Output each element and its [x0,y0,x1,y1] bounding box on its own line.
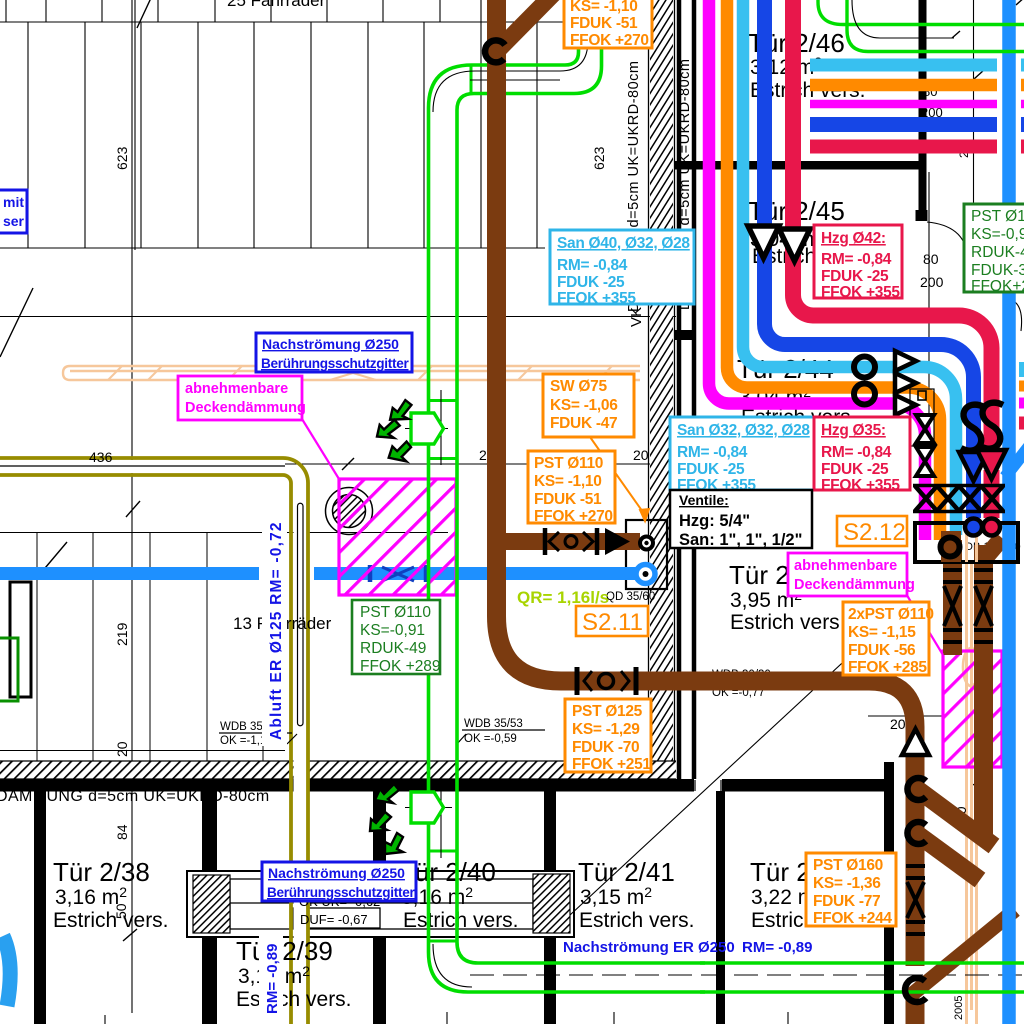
svg-text:DÄMMUNG d=5cm UK=UKRD-80cm: DÄMMUNG d=5cm UK=UKRD-80cm [0,787,270,805]
horizontal bars top right [810,65,1024,147]
San box 2 [670,417,814,494]
svg-text:FDUK-35: FDUK-35 [971,262,1024,279]
svg-text:80: 80 [923,251,939,267]
magenta hatch box right [943,651,1002,767]
svg-text:OK =-0,59: OK =-0,59 [464,733,517,745]
svg-text:FDUK -70: FDUK -70 [572,739,639,756]
thin black arc top right duct [852,0,935,38]
thick wall below band [0,779,694,792]
svg-text:RDUK-49: RDUK-49 [360,640,426,657]
PST160 box [806,853,896,927]
SW box [543,374,634,437]
blue big vertical pipe right [1002,0,1016,1024]
svg-text:FDUK -47: FDUK -47 [550,415,617,432]
ticks [0,0,151,941]
svg-text:Tür 2/38: Tür 2/38 [53,857,150,887]
svg-text:Deckendämmung: Deckendämmung [794,577,915,593]
svg-text:200: 200 [920,274,944,290]
right edge chips [1019,370,1024,424]
svg-text:abnehmenbare: abnehmenbare [794,558,897,574]
big down triangles Tuer 2/45 [748,226,779,258]
thin black arcs in duct [405,0,588,987]
blue box 1 [256,333,412,372]
svg-text:San Ø40, Ø32, Ø28: San Ø40, Ø32, Ø28 [557,235,690,252]
brown diagonal top [497,0,575,51]
svg-text:Estrich vers.: Estrich vers. [53,909,169,932]
green duct top right thin [818,0,1024,52]
svg-text:FFOK +285: FFOK +285 [848,659,927,676]
fittings on brown branch [545,528,597,555]
svg-text:FFOK+25: FFOK+25 [971,278,1024,295]
green rect left edge [0,638,18,701]
manifold rect [915,523,1018,562]
svg-text:Abluft ER Ø125 RM= -0,72: Abluft ER Ø125 RM= -0,72 [268,521,285,740]
orange leader from SW box [590,437,649,521]
door/grille assembly bottom [187,871,574,937]
brown branch to flange [498,533,640,550]
svg-text:KS= -1,10: KS= -1,10 [570,0,638,15]
crossing rings [854,357,875,378]
svg-text:Estrich vers.: Estrich vers. [730,611,846,634]
svg-text:Deckendämmung: Deckendämmung [185,400,306,416]
wall stub crossing [675,330,694,340]
blue pipe Abluft [0,567,655,580]
bottom-left small blue curve [3,936,10,1006]
svg-text:20: 20 [633,447,649,463]
svg-text:Estrich vers.: Estrich vers. [403,909,519,932]
svg-text:DUF= -0,67: DUF= -0,67 [300,912,368,927]
brown risers right [943,540,962,655]
svg-text:RM= -0,84: RM= -0,84 [821,251,892,268]
filled triangles blue red [959,452,988,481]
svg-text:KS= -1,10: KS= -1,10 [534,473,602,490]
X-band wall [913,486,1005,512]
svg-text:PST Ø125: PST Ø125 [572,703,643,720]
drain circle [326,488,373,535]
blue box 2 [262,862,416,901]
svg-text:84: 84 [114,824,130,840]
peach vertical conduit right [963,545,979,1024]
svg-text:Estrich vers.: Estrich vers. [579,909,695,932]
green arrows set2 [370,784,403,854]
thin rect around flanges [626,520,667,589]
svg-text:QD 35/60: QD 35/60 [606,591,655,603]
dimension line 623 [132,0,135,1013]
olive duct white interior [0,460,283,473]
dim line y464 [285,463,676,465]
svg-text:PST Ø110: PST Ø110 [971,208,1024,225]
svg-text:2005: 2005 [953,996,965,1020]
green pentagon damper 2 [411,792,444,823]
S2.12 box [837,516,907,546]
svg-text:WDB 35/53: WDB 35/53 [464,718,523,730]
S2.11 box [576,606,648,636]
green pentagon damper 1 [411,413,444,444]
svg-text:FFOK +244: FFOK +244 [813,910,892,927]
svg-text:QR= 1,16l/s: QR= 1,16l/s [517,588,609,607]
five risers: magenta [709,0,925,540]
svg-text:Estrich vers.: Estrich vers. [236,988,352,1011]
solid arrow right [605,528,630,555]
svg-text:FDUK -25: FDUK -25 [557,274,625,291]
svg-text:abnehmenbare: abnehmenbare [185,381,288,397]
black rect left [10,582,31,697]
bowtie valves on magenta riser [910,389,934,446]
orange box top [564,0,652,49]
brown diagonals bottom right [913,786,994,846]
svg-text:FFOK +270: FFOK +270 [570,32,649,49]
svg-text:Ventile:: Ventile: [679,492,729,508]
svg-text:FDUK -25: FDUK -25 [821,268,889,285]
fittings on brown horizontal 2 [577,667,636,695]
svg-text:20: 20 [114,741,130,757]
C ring bottom elbow [905,978,926,1002]
green box right [964,204,1024,295]
brown main pipe vertical + elbow [497,0,1016,1024]
svg-text:S2.12: S2.12 [843,519,906,546]
thin line top duct centerline [935,37,954,39]
red riser [793,0,992,452]
svg-text:Berührungsschutzgitter: Berührungsschutzgitter [261,356,409,371]
svg-text:436: 436 [89,449,113,465]
svg-text:FFOK +289: FFOK +289 [360,658,441,675]
svg-text:SW Ø75: SW Ø75 [550,378,607,395]
svg-text:FDUK -25: FDUK -25 [677,461,745,478]
svg-text:Nachströmung Ø250: Nachströmung Ø250 [262,336,399,352]
PST110 box [528,451,615,525]
section diagonal line [570,602,908,915]
olive duct centerline + slot [0,466,303,726]
magenta hatch box center [339,479,456,595]
blue red flange circles [965,519,982,536]
svg-text:San Ø32, Ø32, Ø28: San Ø32, Ø32, Ø28 [677,422,810,439]
svg-text:Berührungsschutzgitter: Berührungsschutzgitter [267,885,415,900]
green PST box left [352,600,441,675]
rotated blue text masks [262,512,287,746]
bike rack main comb [28,0,537,248]
svg-text:FDUK -51: FDUK -51 [534,491,602,508]
navy fitting overlay [370,565,426,582]
olive duct lines [0,458,308,1024]
Hzg box 1 [814,225,902,301]
2xPST box [843,602,934,676]
svg-text:FDUK -25: FDUK -25 [821,461,889,478]
magenta label box 2 + leader [905,592,943,655]
svg-text:3,15 m2: 3,15 m2 [580,884,652,909]
PST125 box [565,699,651,773]
svg-text:25 Fahrräder: 25 Fahrräder [227,0,326,10]
peach grille band [63,366,640,380]
svg-text:PST Ø110: PST Ø110 [534,455,603,472]
door swing arc top right [927,222,968,268]
svg-text:Hzg Ø42:: Hzg Ø42: [821,230,886,247]
svg-text:Tür 2/41: Tür 2/41 [578,857,675,887]
svg-text:2: 2 [479,447,487,463]
blue diagonal branch [1005,440,1024,477]
svg-text:RM= -0,89: RM= -0,89 [742,939,812,956]
svg-text:RM= -0,89: RM= -0,89 [264,944,281,1014]
svg-text:FFOK +355: FFOK +355 [821,284,900,301]
transverse ties [428,65,471,941]
svg-text:KS= -1,29: KS= -1,29 [572,721,640,738]
blue flange + brown flange [636,565,655,584]
svg-text:mit: mit [3,194,24,210]
dim line under 20 right [868,715,944,717]
C rings on brown riser [907,778,926,800]
Ventile box [670,490,812,549]
svg-text:FFOK +251: FFOK +251 [572,756,651,773]
inner line [457,0,705,963]
open triangle on pipe bend [902,729,929,755]
svg-text:Nachströmung ER Ø250: Nachströmung ER Ø250 [563,939,735,956]
orange riser [727,0,940,540]
corner slashes [952,0,1024,79]
svg-text:2xPST Ø110: 2xPST Ø110 [848,606,934,623]
outer line: top-left corner down to bottom elbow [429,0,706,992]
svg-text:623: 623 [591,146,607,170]
lower bike comb 13 Fahrraeder [37,533,263,761]
green air lines overdraw right [700,963,1024,992]
svg-text:Tür 2/39: Tür 2/39 [236,936,333,966]
top right wall horizontal [675,161,926,170]
S symbols on blue and red risers [961,405,984,451]
svg-text:S2.11: S2.11 [582,609,643,636]
bike rack top comb (short) [6,0,496,22]
svg-text:KS=-0,95: KS=-0,95 [971,226,1024,243]
bottom stubs [105,1012,788,1024]
dim line for 50 right [973,776,987,835]
svg-text:Hzg: 5/4": Hzg: 5/4" [679,512,750,530]
svg-text:PST Ø160: PST Ø160 [813,857,883,874]
svg-text:KS= -1,15: KS= -1,15 [848,624,916,641]
small arc right edge [1012,300,1022,331]
svg-text:KS=-0,91: KS=-0,91 [360,622,425,639]
top right wall vertical [919,0,927,213]
svg-text:FDUK -51: FDUK -51 [570,15,638,32]
svg-text:FFOK +355: FFOK +355 [821,477,900,494]
wall hatch column center [649,0,695,779]
green duct main vertical [428,0,705,992]
hatched wall band horizontal [0,761,676,779]
svg-text:ser: ser [3,213,25,229]
svg-text:20: 20 [890,716,906,732]
svg-text:PST Ø110: PST Ø110 [360,604,431,621]
svg-text:FDUK -77: FDUK -77 [813,893,880,910]
ladder marks on risers [906,570,993,934]
svg-text:RM= -0,84: RM= -0,84 [677,444,748,461]
room walls vertical [34,791,46,1024]
svg-text:Nachströmung Ø250: Nachströmung Ø250 [268,865,405,881]
svg-text:FDUK -56: FDUK -56 [848,642,916,659]
svg-text:623: 623 [114,146,130,170]
Hzg box 2 [814,417,910,494]
svg-text:FFOK +355: FFOK +355 [557,290,636,307]
right-pointing valve triangles [895,351,916,415]
C elbow ring top [485,40,505,62]
cyan riser [743,0,956,535]
green arrows set1 [377,399,414,463]
svg-text:FFOK +270: FFOK +270 [534,508,613,525]
svg-text:KS= -1,06: KS= -1,06 [550,397,618,414]
svg-text:Hzg Ø35:: Hzg Ø35: [821,422,886,439]
blue riser [765,0,974,452]
San box 1 [550,230,694,307]
door jamb lines in gap [695,780,721,791]
blue box left edge [0,190,27,233]
line above wall band [0,750,285,752]
horizontal rails [0,22,676,317]
svg-text:RM= -0,84: RM= -0,84 [557,257,628,274]
svg-text:RDUK-40: RDUK-40 [971,244,1024,261]
magenta leader to box1 [302,419,339,479]
svg-text:219: 219 [114,622,130,646]
svg-text:San: 1", 1", 1/2": San: 1", 1", 1/2" [679,531,802,549]
room line y532 [0,532,448,534]
svg-text:RM= -0,84: RM= -0,84 [821,444,892,461]
right side thin verticals [929,0,974,486]
wall thick lines beside hatch column [679,0,694,779]
svg-text:3,16 m2: 3,16 m2 [55,884,127,909]
magenta label box 1 [178,376,306,420]
svg-text:KS= -1,36: KS= -1,36 [813,875,881,892]
